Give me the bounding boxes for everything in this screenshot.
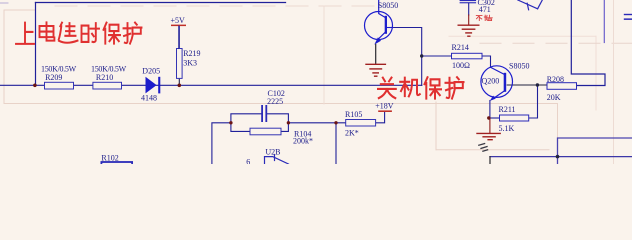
resistor R104 <box>250 128 281 135</box>
wire: Q201 emitter drop <box>375 45 377 64</box>
junction at Q201 base / R214 <box>420 54 423 57</box>
resistor R102 (cut at bottom edge) <box>101 162 132 168</box>
transistor Q201 S8050 <box>365 0 393 45</box>
char 延 <box>59 23 78 43</box>
ground (Q200) <box>477 133 500 139</box>
wire: R219 top stub <box>178 26 180 49</box>
wire: R214 left lead <box>422 55 452 57</box>
svg-text:R105: R105 <box>345 110 362 119</box>
resistor R209 <box>45 82 74 89</box>
resistor R219 <box>177 49 183 79</box>
char 上 <box>16 23 34 44</box>
red small label 不插 <box>476 15 492 20</box>
char 电 <box>40 22 55 40</box>
svg-text:R210: R210 <box>96 73 113 82</box>
svg-text:R102: R102 <box>101 154 118 163</box>
wire: bottom-right bus B <box>490 156 632 158</box>
wire: Q201 base run <box>393 28 422 86</box>
resistor R208 <box>547 83 577 90</box>
wire: R105 right lead <box>376 112 385 123</box>
char 关 <box>378 78 396 98</box>
wire: R219 bottom stub <box>178 78 180 85</box>
char 保 <box>104 23 121 44</box>
ground (Q201) <box>366 64 385 76</box>
svg-text:+5V: +5V <box>171 16 186 25</box>
wire: Q200 emitter drop <box>489 101 491 119</box>
wire: C102 loop frame <box>231 114 289 132</box>
wire: drop to op-amp <box>335 123 337 164</box>
resistor R214 <box>452 53 483 59</box>
svg-text:R209: R209 <box>45 73 62 82</box>
char 护 <box>124 23 142 44</box>
diode D205 <box>146 77 161 94</box>
svg-text:100Ω: 100Ω <box>452 61 470 70</box>
red title: 关机保护 <box>378 77 464 98</box>
svg-text:R219: R219 <box>183 49 200 58</box>
resistor R105 <box>346 120 376 127</box>
svg-text:2225: 2225 <box>267 97 283 106</box>
svg-text:R208: R208 <box>547 75 564 84</box>
power +18V <box>378 110 392 112</box>
svg-text:5.1K: 5.1K <box>499 124 515 133</box>
wire: C102 loop left stub and down <box>212 123 231 164</box>
svg-text:200k*: 200k* <box>293 136 313 145</box>
resistor R211 <box>500 115 529 121</box>
svg-text:471: 471 <box>479 5 491 14</box>
wire: black drop at bus B left <box>489 157 491 164</box>
wire: main horizontal net <box>0 84 422 86</box>
red title: 上电延时保护 <box>16 22 142 43</box>
char 时 <box>82 23 100 42</box>
svg-text:Q200: Q200 <box>482 77 500 86</box>
light stub top-left <box>0 2 8 4</box>
svg-text:20K: 20K <box>547 93 561 102</box>
junction at Q200 emitter / R211 <box>487 116 490 119</box>
wire: R211 right lead riser <box>529 85 538 118</box>
junction at C102 loop left node <box>229 121 232 124</box>
wire: R211 left lead <box>489 117 500 119</box>
wire: top rail <box>36 2 286 4</box>
junction at main wire / R219 <box>178 84 182 88</box>
svg-text:+18V: +18V <box>375 101 394 110</box>
wire: loop to R105 <box>288 122 345 124</box>
junction at Q200 base / R208 / R211 <box>536 83 539 86</box>
junction at bottom-right buses <box>556 155 560 159</box>
junction at C102 loop right node <box>287 121 290 124</box>
char 保 <box>425 77 442 98</box>
svg-text:S8050: S8050 <box>509 61 529 70</box>
power +5V <box>171 25 186 49</box>
svg-text:R214: R214 <box>452 43 469 52</box>
wire: R214 right lead to Q200 collector <box>482 56 491 67</box>
junction at main wire / left riser <box>33 84 37 88</box>
svg-text:R211: R211 <box>499 105 516 114</box>
capacitor C102 <box>261 105 267 122</box>
diode D? (rotated, top right) <box>518 0 542 10</box>
svg-text:S8050: S8050 <box>378 1 398 10</box>
svg-text:D205: D205 <box>142 66 160 75</box>
transistor Q200 S8050 <box>481 66 513 101</box>
svg-text:U2B: U2B <box>265 148 280 157</box>
ground (C302) <box>458 25 479 36</box>
char 机 <box>400 78 420 97</box>
resistor R210 <box>93 82 122 89</box>
wire: bottom-right bus A <box>558 138 632 164</box>
wire: left vertical <box>35 3 37 86</box>
faint region box lines <box>4 0 632 164</box>
char 护 <box>446 77 464 98</box>
svg-text:2K*: 2K* <box>345 128 359 137</box>
wire: R208 right to top rail riser <box>571 0 605 86</box>
svg-text:3K3: 3K3 <box>183 59 197 68</box>
capacitor C302 <box>460 0 477 24</box>
wire: purple riser <box>603 0 605 43</box>
junction at R105 / op-amp drop <box>334 121 337 124</box>
no-connect squiggle <box>479 144 488 152</box>
op-amp U2B (cut at bottom) <box>265 155 289 164</box>
svg-text:4148: 4148 <box>141 94 157 103</box>
wire: Q200 base lead <box>507 84 547 86</box>
svg-text:6: 6 <box>246 158 250 165</box>
capacitor at right edge <box>624 14 632 20</box>
